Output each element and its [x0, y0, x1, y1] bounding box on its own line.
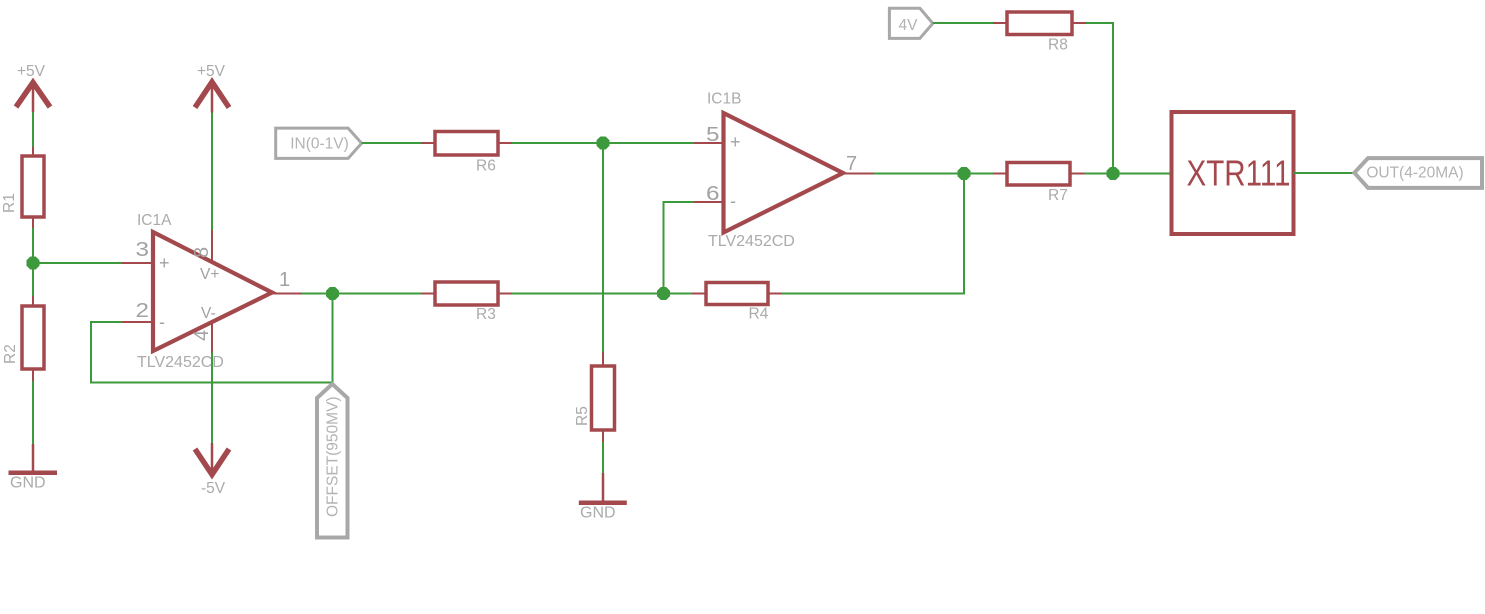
wire J2 to R3 — [333, 293, 422, 295]
wire J3 down to R5 — [602, 143, 604, 353]
svg-text:+: + — [159, 253, 170, 273]
svg-text:4V: 4V — [899, 17, 919, 34]
wire R1 to node J1 — [32, 228, 34, 263]
tag IN(0-1V) — [276, 128, 362, 158]
wire R5 to GND2 — [602, 442, 604, 473]
IC1A pin2 stub — [122, 321, 155, 323]
resistor R5 — [574, 352, 615, 442]
svg-text:R5: R5 — [574, 406, 591, 426]
svg-text:1: 1 — [279, 269, 290, 291]
svg-text:-5V: -5V — [201, 480, 226, 497]
tag OUT(4-20MA) — [1354, 158, 1482, 188]
IC1B pin5 stub — [694, 142, 726, 144]
wire R3 to node J4 — [512, 293, 664, 295]
IC1B output pin 7 stub — [842, 173, 874, 175]
node J5 — [958, 167, 971, 180]
ground GND1 — [9, 444, 58, 492]
wire J5 to R7 — [964, 173, 993, 175]
node J4 — [657, 287, 670, 300]
svg-text:R1: R1 — [1, 193, 18, 213]
svg-text:4: 4 — [191, 330, 213, 341]
wire R2 to GND — [32, 381, 34, 444]
wire pin6 riser to J4 — [664, 202, 695, 294]
svg-text:R6: R6 — [476, 158, 496, 175]
wire feedback IC1A pin2 loop — [91, 322, 333, 383]
pin V- stub (pin 4) — [211, 318, 213, 353]
svg-text:5: 5 — [706, 124, 720, 146]
svg-text:GND: GND — [580, 505, 616, 522]
svg-text:R8: R8 — [1048, 37, 1068, 54]
power +5V P1 — [16, 63, 50, 112]
tag OFFSET(950MV) — [317, 384, 348, 538]
svg-text:OUT(4-20MA): OUT(4-20MA) — [1366, 165, 1463, 182]
resistor R8 — [993, 12, 1086, 54]
node J2 — [326, 287, 339, 300]
svg-text:2: 2 — [136, 300, 150, 322]
wire R7 to node J6 — [1085, 173, 1114, 175]
svg-text:GND: GND — [10, 475, 46, 492]
svg-text:-: - — [159, 312, 165, 332]
svg-text:-: - — [730, 191, 736, 211]
svg-text:TLV2452CD: TLV2452CD — [708, 233, 795, 250]
wire pin7 to node J5 — [874, 173, 964, 175]
wire J2 down to OFFSET tag — [332, 294, 334, 384]
node J3 — [597, 137, 610, 150]
svg-text:IN(0-1V): IN(0-1V) — [290, 136, 349, 153]
node J1 — [27, 257, 40, 270]
power +5V P2 — [195, 63, 229, 113]
resistor R2 — [2, 296, 44, 381]
node J6 — [1107, 167, 1120, 180]
svg-text:V+: V+ — [200, 266, 219, 283]
wire J1 to IC1A pin3 — [33, 262, 122, 264]
wire +5V to IC1A V+ — [211, 113, 213, 232]
svg-text:+5V: +5V — [17, 63, 46, 80]
wire IC1A V- to -5V — [211, 353, 213, 444]
power -5V P3 — [195, 443, 229, 497]
svg-text:IC1B: IC1B — [707, 91, 741, 108]
tag 4V — [889, 8, 932, 38]
svg-text:XTR111: XTR111 — [1187, 153, 1291, 194]
op-amp IC1A — [136, 212, 291, 371]
svg-text:+5V: +5V — [197, 63, 226, 80]
wire R6 to node J3 — [512, 142, 603, 144]
svg-text:V-: V- — [201, 305, 216, 322]
svg-text:7: 7 — [846, 153, 857, 175]
wire IN tag to R6 — [362, 142, 421, 144]
wire pin1 to node J2 — [302, 293, 333, 295]
wire 4V tag to R8 — [933, 22, 993, 24]
wire J4 to R4 — [664, 293, 693, 295]
wire R8 to J6 riser — [1086, 23, 1113, 174]
IC1B pin6 stub — [694, 201, 726, 203]
svg-text:OFFSET(950MV): OFFSET(950MV) — [325, 396, 342, 517]
svg-text:R2: R2 — [2, 344, 19, 364]
wire J1 down to R2 — [32, 263, 34, 296]
svg-text:3: 3 — [136, 239, 150, 261]
svg-text:R7: R7 — [1048, 187, 1068, 204]
svg-text:R3: R3 — [476, 306, 496, 323]
wire XTR111 to OUT tag — [1294, 172, 1355, 174]
wire R4 to IC1B output riser — [782, 174, 964, 294]
svg-text:IC1A: IC1A — [137, 212, 172, 229]
IC1A pin3 stub — [122, 262, 155, 264]
IC1A output pin 1 stub — [271, 293, 302, 295]
resistor R1 — [1, 147, 44, 228]
wire J3 to IC1B pin5 — [603, 142, 694, 144]
ground GND2 — [579, 473, 627, 522]
resistor R7 — [993, 163, 1085, 205]
svg-text:6: 6 — [706, 183, 720, 205]
IC U2 XTR111 — [1172, 112, 1294, 234]
pin V+ stub (pin 8) — [211, 230, 213, 265]
svg-text:+: + — [730, 132, 741, 152]
wire J6 to XTR111 — [1113, 173, 1172, 175]
wire +5V to R1 — [32, 112, 34, 147]
resistor R4 — [692, 283, 782, 323]
svg-text:8: 8 — [191, 247, 213, 258]
resistor R3 — [421, 282, 512, 323]
svg-text:TLV2452CD: TLV2452CD — [137, 354, 224, 371]
op-amp IC1B — [706, 91, 857, 251]
resistor R6 — [421, 132, 512, 175]
svg-text:R4: R4 — [749, 306, 769, 323]
